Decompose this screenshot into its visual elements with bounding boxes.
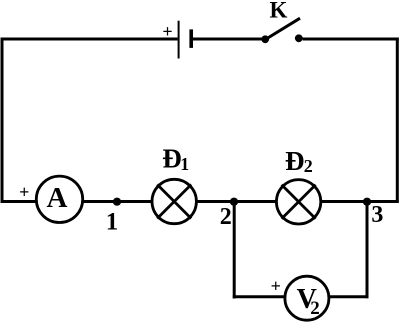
lamp D1 cross line 2 bbox=[157, 185, 191, 219]
lamp D2 cross line 1 bbox=[282, 185, 316, 219]
node 1 dot bbox=[113, 198, 121, 206]
wire ammeter to lamp D1 bbox=[84, 200, 152, 203]
lamp D1 circle bbox=[152, 179, 196, 223]
wire switch to top-right corner bbox=[303, 38, 399, 41]
wire battery to switch bbox=[193, 38, 266, 41]
svg-text:+: + bbox=[162, 22, 172, 42]
wire top-left (battery to top-left corner) bbox=[1, 38, 178, 41]
wire node 2 down to voltmeter level bbox=[233, 202, 236, 299]
svg-text:+: + bbox=[271, 276, 281, 296]
wire right branch riser up to node 3 bbox=[366, 202, 369, 299]
svg-text:+: + bbox=[19, 182, 29, 202]
svg-text:Đ: Đ bbox=[285, 146, 305, 176]
lamp D1 cross line 1 bbox=[157, 185, 191, 219]
node 2 dot bbox=[230, 198, 238, 206]
lamp D2 circle bbox=[276, 180, 320, 224]
svg-text:2: 2 bbox=[310, 298, 320, 319]
battery long plate (positive) bbox=[178, 21, 180, 59]
svg-text:1: 1 bbox=[180, 154, 189, 174]
switch K lever bbox=[265, 18, 301, 40]
wire lamp D2 to right side bbox=[321, 200, 399, 203]
wire lamp D1 to lamp D2 bbox=[197, 200, 276, 203]
switch K right contact dot bbox=[295, 34, 303, 42]
switch K left contact dot bbox=[261, 35, 269, 43]
svg-text:2: 2 bbox=[220, 204, 232, 230]
svg-text:2: 2 bbox=[304, 156, 313, 176]
battery short plate (negative) bbox=[189, 29, 193, 48]
svg-text:3: 3 bbox=[371, 202, 383, 228]
wire left side (top-left corner down) bbox=[1, 38, 4, 204]
svg-text:1: 1 bbox=[106, 209, 119, 236]
voltmeter V2 circle bbox=[285, 276, 329, 320]
wire right side (top-right corner down to node 3 level) bbox=[396, 38, 399, 204]
wire left to ammeter bbox=[1, 200, 38, 203]
node 3 dot bbox=[363, 198, 371, 206]
svg-text:K: K bbox=[270, 0, 288, 23]
svg-text:A: A bbox=[47, 182, 68, 214]
svg-text:Đ: Đ bbox=[162, 144, 182, 174]
wire voltmeter to right branch riser bbox=[328, 295, 368, 298]
wire voltmeter branch bottom-left bbox=[233, 295, 286, 298]
lamp D2 cross line 2 bbox=[282, 185, 316, 219]
ammeter A circle bbox=[36, 176, 82, 222]
